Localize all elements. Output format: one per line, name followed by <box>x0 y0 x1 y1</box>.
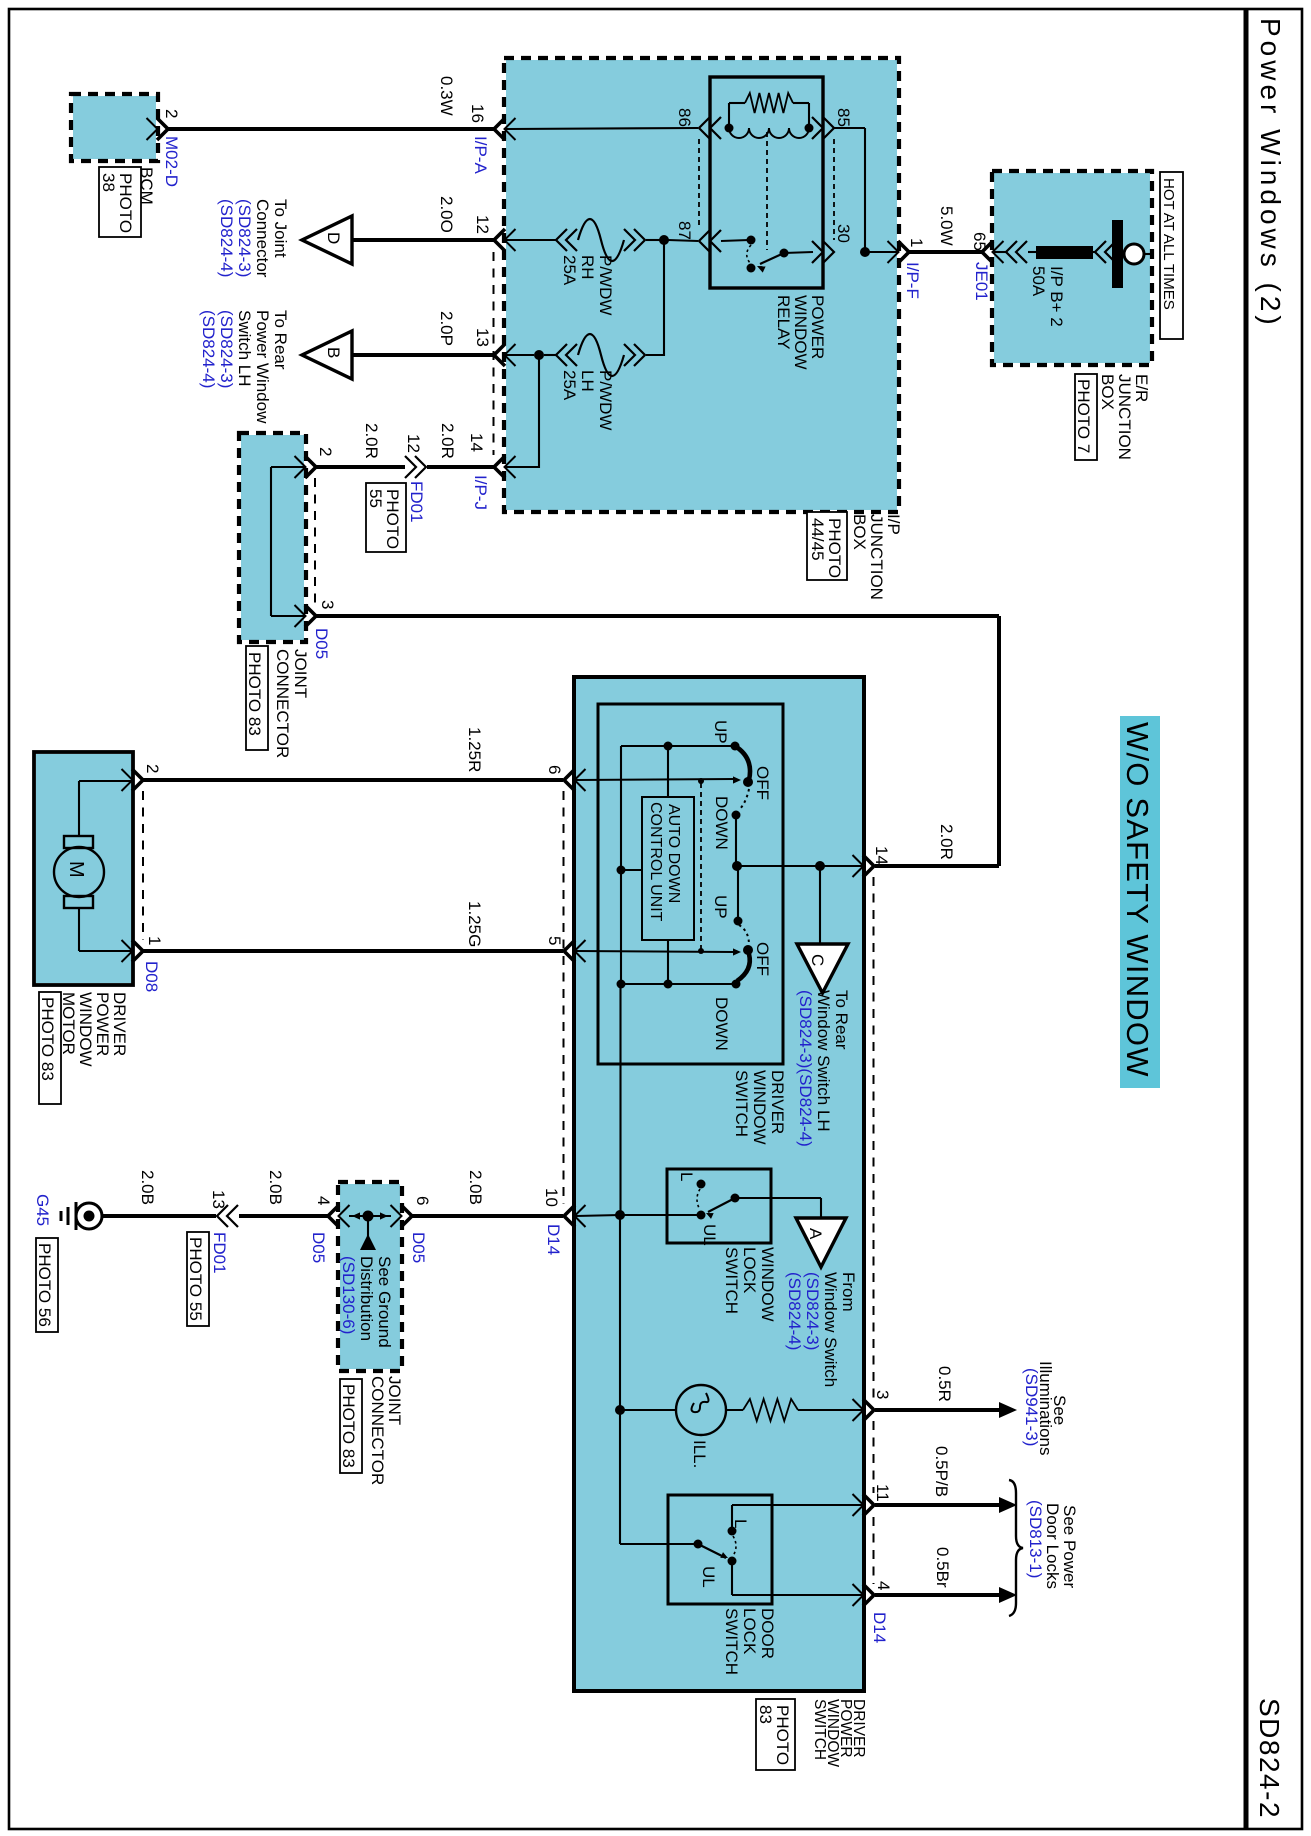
relay pin 30 <box>812 241 823 263</box>
svg-text:65: 65 <box>970 232 989 251</box>
wire 2.0B to switch pin 10 <box>412 1214 563 1218</box>
svg-text:0.5P/B: 0.5P/B <box>932 1446 951 1497</box>
dashed grouping pins 6-10 <box>563 791 565 1204</box>
wire joint pin3 to switch pin 14 <box>316 614 999 618</box>
dashed grouping right pins <box>873 877 875 1398</box>
svg-text:CONNECTOR: CONNECTOR <box>273 649 292 758</box>
left bus and unit leads <box>621 745 735 747</box>
BCM connector M02-D box <box>73 96 156 159</box>
label PHOTO 38 <box>99 167 141 237</box>
wire 2.0B to joint connector <box>239 1214 328 1218</box>
label PHOTO 83 <box>246 646 268 750</box>
svg-text:C: C <box>808 954 827 966</box>
svg-text:To Rear: To Rear <box>832 990 851 1050</box>
svg-text:(SD824-4): (SD824-4) <box>199 310 218 388</box>
pin 10 D14 <box>564 1205 575 1227</box>
svg-text:2.0O: 2.0O <box>437 196 456 233</box>
svg-text:38: 38 <box>99 173 118 192</box>
svg-text:PHOTO 7: PHOTO 7 <box>1074 379 1093 453</box>
top manual switch UP/OFF/DOWN <box>576 779 735 780</box>
svg-text:2.0R: 2.0R <box>937 824 956 860</box>
svg-text:P/WDW: P/WDW <box>596 255 615 315</box>
W/O SAFETY WINDOW banner <box>1120 716 1160 1088</box>
svg-text:DOOR: DOOR <box>758 1608 777 1659</box>
svg-text:DOWN: DOWN <box>712 997 731 1051</box>
svg-text:JE01: JE01 <box>972 262 991 301</box>
fuse I/P B+ 2 50A <box>994 251 1006 253</box>
svg-text:16: 16 <box>468 104 487 123</box>
pin 13 <box>494 344 505 366</box>
svg-text:LOCK: LOCK <box>740 1247 759 1294</box>
pin 6 <box>564 769 575 791</box>
pin 5 <box>564 940 575 962</box>
svg-text:D05: D05 <box>409 1232 428 1263</box>
I/P junction box <box>506 60 897 510</box>
svg-text:SWITCH: SWITCH <box>811 1699 828 1760</box>
svg-text:DOWN: DOWN <box>712 796 731 850</box>
wire 1.25R motor to pin 6 <box>143 778 563 782</box>
svg-text:14: 14 <box>872 846 891 865</box>
svg-text:Distribution: Distribution <box>357 1256 376 1341</box>
svg-text:To Rear: To Rear <box>271 310 290 370</box>
wire 0.3W BCM to I/P-A pin 16 <box>168 127 494 131</box>
wire LH fuse to node <box>663 238 665 356</box>
svg-text:SWITCH: SWITCH <box>722 1608 741 1675</box>
svg-text:AUTO DOWN: AUTO DOWN <box>665 804 682 903</box>
label PHOTO 44/45 <box>807 512 847 580</box>
svg-text:I/P-F: I/P-F <box>903 262 922 299</box>
svg-text:WINDOW: WINDOW <box>758 1247 777 1322</box>
wire pin16 to relay 86 <box>506 128 698 129</box>
svg-text:1: 1 <box>145 936 164 945</box>
svg-text:M: M <box>65 861 87 878</box>
label HOT AT ALL TIMES <box>1160 172 1183 339</box>
svg-text:2: 2 <box>143 764 162 773</box>
pin 4 D05 <box>328 1205 339 1227</box>
svg-text:(SD824-3): (SD824-3) <box>803 1272 822 1350</box>
svg-text:13: 13 <box>209 1190 228 1209</box>
svg-text:10: 10 <box>542 1188 561 1207</box>
svg-text:UP: UP <box>711 895 730 919</box>
pin 1 I/P-F <box>898 241 909 263</box>
inner switch box <box>598 704 783 1064</box>
svg-text:2.0B: 2.0B <box>138 1170 157 1205</box>
relay pin 87 <box>699 230 710 252</box>
svg-text:30: 30 <box>834 224 853 243</box>
motor pin 1 <box>132 940 143 962</box>
BCM pin 2 <box>157 118 168 140</box>
svg-text:UL: UL <box>700 1224 719 1246</box>
svg-text:2.0B: 2.0B <box>266 1170 285 1205</box>
label PHOTO 83 <box>756 1699 795 1770</box>
svg-text:Power Windows (2): Power Windows (2) <box>1255 18 1286 329</box>
ground G45 <box>76 1203 102 1229</box>
relay pin 86 <box>699 117 710 139</box>
svg-text:12: 12 <box>473 215 492 234</box>
dashed grouping motor pins <box>142 791 144 940</box>
pin 16 I/P-A <box>494 118 505 140</box>
svg-text:14: 14 <box>467 433 486 452</box>
svg-text:PHOTO 55: PHOTO 55 <box>186 1237 205 1321</box>
svg-text:1.25G: 1.25G <box>465 901 484 947</box>
svg-text:B: B <box>324 347 343 358</box>
svg-text:0.5R: 0.5R <box>935 1366 954 1402</box>
internal bus <box>271 466 305 468</box>
pin 4 D14 <box>863 1584 874 1606</box>
wire 0.5P/B to power door locks <box>875 1503 1000 1507</box>
pin 14 I/P-J <box>494 456 505 478</box>
wire 1.25G motor to pin 5 <box>143 949 563 953</box>
svg-text:LOCK: LOCK <box>740 1608 759 1655</box>
svg-text:DRIVER: DRIVER <box>768 1070 787 1134</box>
wire pin14 to pin13 node <box>506 466 539 468</box>
svg-text:P/WDW: P/WDW <box>596 370 615 430</box>
svg-text:(SD824-3): (SD824-3) <box>235 199 254 277</box>
svg-text:D14: D14 <box>870 1612 889 1643</box>
svg-text:(SD824-4): (SD824-4) <box>785 1272 804 1350</box>
svg-text:PHOTO 83: PHOTO 83 <box>245 652 264 736</box>
svg-text:2.0P: 2.0P <box>437 311 456 346</box>
svg-text:D05: D05 <box>309 1232 328 1263</box>
motor M symbol <box>54 847 104 897</box>
relay pin 85 <box>812 117 823 139</box>
svg-text:44/45: 44/45 <box>808 518 827 561</box>
svg-text:12: 12 <box>404 434 423 453</box>
svg-text:D: D <box>324 232 343 244</box>
wire 2.0B to FD01 13 <box>102 1214 216 1218</box>
svg-text:86: 86 <box>675 108 694 127</box>
internal ground bus <box>619 984 621 1215</box>
dashed links outside relay <box>698 139 700 229</box>
relay coil <box>729 128 809 138</box>
svg-text:PHOTO 83: PHOTO 83 <box>38 997 57 1081</box>
svg-text:L: L <box>731 1519 750 1528</box>
svg-text:I/P B+ 2: I/P B+ 2 <box>1047 266 1066 327</box>
svg-text:UL: UL <box>699 1566 718 1588</box>
illumination lamp <box>615 1405 625 1415</box>
svg-text:JOINT: JOINT <box>291 649 310 698</box>
svg-text:BOX: BOX <box>850 514 869 550</box>
svg-text:ILL.: ILL. <box>690 1440 709 1468</box>
svg-text:25A: 25A <box>560 370 579 401</box>
svg-text:25A: 25A <box>560 255 579 286</box>
svg-text:87: 87 <box>675 221 694 240</box>
driver power window switch box <box>576 679 862 1689</box>
relay mechanical link <box>766 132 768 250</box>
fuse P/WDW LH 25A <box>506 354 534 356</box>
svg-text:G45: G45 <box>33 1194 52 1226</box>
node fuse RH output <box>659 235 669 245</box>
wire relay85 to node30 <box>834 127 865 129</box>
svg-text:HOT AT ALL TIMES: HOT AT ALL TIMES <box>1160 178 1177 310</box>
pin 11 <box>863 1494 874 1516</box>
E/R junction box <box>994 173 1150 363</box>
pin 3 D05 <box>305 605 316 627</box>
pin 65 JE01 <box>982 241 993 263</box>
joint connector D05 box <box>340 1184 400 1369</box>
svg-text:Connector: Connector <box>253 199 272 278</box>
svg-text:3: 3 <box>318 600 337 609</box>
svg-text:55: 55 <box>366 489 385 508</box>
svg-text:6: 6 <box>545 765 564 774</box>
svg-text:PHOTO 83: PHOTO 83 <box>339 1384 358 1468</box>
pin 12 <box>494 229 505 251</box>
svg-text:2.0B: 2.0B <box>466 1170 485 1205</box>
internal bus with ground ref <box>349 1215 391 1217</box>
svg-text:(SD824-4): (SD824-4) <box>217 199 236 277</box>
connector B to rear power window switch <box>302 331 352 379</box>
svg-text:A: A <box>806 1228 825 1240</box>
svg-text:1.25R: 1.25R <box>465 727 484 772</box>
fuse P/WDW RH 25A <box>506 239 556 241</box>
svg-text:Power Window: Power Window <box>253 310 272 424</box>
svg-text:6: 6 <box>413 1196 432 1205</box>
switch link dashed <box>700 783 702 949</box>
relay switch <box>721 240 749 241</box>
pin 6 D05 <box>401 1205 412 1227</box>
svg-text:2.0R: 2.0R <box>362 423 381 459</box>
pin 14 <box>863 855 874 877</box>
svg-text:CONNECTOR: CONNECTOR <box>368 1376 387 1485</box>
svg-text:85: 85 <box>834 108 853 127</box>
svg-text:4: 4 <box>874 1581 893 1590</box>
svg-text:0.5Br: 0.5Br <box>933 1547 952 1588</box>
svg-text:PHOTO 56: PHOTO 56 <box>35 1243 54 1327</box>
svg-text:(SD824-3)(SD824-4): (SD824-3)(SD824-4) <box>796 990 815 1147</box>
pin 3 <box>863 1399 874 1421</box>
svg-text:I/P-J: I/P-J <box>471 475 490 510</box>
svg-text:SWITCH: SWITCH <box>722 1247 741 1314</box>
wire 2.0R with FD01 12 <box>316 465 405 469</box>
connector C triangle <box>819 866 821 944</box>
window lock switch <box>667 1169 771 1243</box>
wire 5.0W <box>909 250 982 254</box>
svg-text:(SD941-3): (SD941-3) <box>1022 1368 1041 1446</box>
svg-text:5: 5 <box>545 936 564 945</box>
pin14 bus <box>735 815 737 866</box>
svg-text:OFF: OFF <box>753 942 772 976</box>
svg-text:OFF: OFF <box>753 766 772 800</box>
svg-text:To Joint: To Joint <box>271 199 290 258</box>
driver power window motor box <box>36 754 133 983</box>
svg-text:0.3W: 0.3W <box>437 76 456 116</box>
connector A triangle <box>796 1218 846 1267</box>
svg-text:SWITCH: SWITCH <box>732 1070 751 1137</box>
svg-text:M02-D: M02-D <box>162 136 181 187</box>
svg-text:UP: UP <box>711 720 730 744</box>
pin 2 D05 <box>305 456 316 478</box>
dashed connector grouping pins 12-14 <box>493 252 495 455</box>
svg-text:4: 4 <box>314 1196 333 1205</box>
svg-text:L: L <box>677 1172 696 1181</box>
svg-text:Switch LH: Switch LH <box>235 310 254 387</box>
svg-text:(SD824-3): (SD824-3) <box>217 310 236 388</box>
battery feed symbol <box>1112 220 1123 288</box>
svg-text:D14: D14 <box>544 1224 563 1255</box>
brace <box>1009 1480 1023 1616</box>
svg-text:RH: RH <box>578 255 597 280</box>
svg-text:11: 11 <box>873 1484 892 1502</box>
auto down control unit <box>642 797 694 940</box>
svg-text:5.0W: 5.0W <box>937 206 956 246</box>
svg-text:I/P-A: I/P-A <box>471 136 490 174</box>
svg-text:BOX: BOX <box>1098 374 1117 410</box>
svg-text:SD824-2: SD824-2 <box>1254 1698 1285 1819</box>
label PHOTO 83 <box>39 992 61 1104</box>
bottom manual switch UP/OFF/DOWN <box>576 951 735 952</box>
svg-text:3: 3 <box>873 1390 892 1399</box>
svg-text:W/O SAFETY WINDOW: W/O SAFETY WINDOW <box>1120 722 1155 1078</box>
svg-text:D08: D08 <box>142 961 161 992</box>
label PHOTO 83 <box>340 1379 362 1473</box>
svg-text:CONTROL UNIT: CONTROL UNIT <box>647 802 664 922</box>
svg-text:D05: D05 <box>312 628 331 659</box>
svg-text:1: 1 <box>907 238 926 247</box>
svg-text:LH: LH <box>578 370 597 392</box>
power window relay box <box>710 77 823 288</box>
svg-text:Window Switch: Window Switch <box>821 1272 840 1387</box>
motor pin 2 <box>132 769 143 791</box>
wire 0.5Br to power door locks <box>875 1593 1000 1597</box>
joint connector D05 box <box>241 435 304 640</box>
svg-text:From: From <box>839 1272 858 1312</box>
svg-text:FD01: FD01 <box>210 1232 229 1274</box>
svg-text:WINDOW: WINDOW <box>750 1070 769 1145</box>
node relay output <box>860 247 870 257</box>
wire 0.5R to illuminations <box>875 1408 1000 1412</box>
svg-text:2: 2 <box>316 447 335 456</box>
svg-text:50A: 50A <box>1029 266 1048 297</box>
dashed grouping pins 2-3 <box>314 478 316 605</box>
svg-text:13: 13 <box>473 328 492 347</box>
svg-text:(SD813-1): (SD813-1) <box>1026 1500 1045 1578</box>
svg-text:RELAY: RELAY <box>774 295 793 350</box>
svg-text:Window Switch LH: Window Switch LH <box>814 990 833 1132</box>
svg-text:2.0R: 2.0R <box>438 423 457 459</box>
svg-text:(SD130-6): (SD130-6) <box>339 1256 358 1334</box>
door lock switch <box>668 1495 772 1604</box>
svg-text:83: 83 <box>756 1705 775 1724</box>
svg-text:FD01: FD01 <box>407 481 426 523</box>
svg-text:2: 2 <box>162 109 181 118</box>
svg-text:See Ground: See Ground <box>375 1256 394 1348</box>
relay coil resistor <box>728 103 730 128</box>
connector D to joint connector <box>302 216 352 264</box>
label PHOTO 7 <box>1075 374 1097 460</box>
